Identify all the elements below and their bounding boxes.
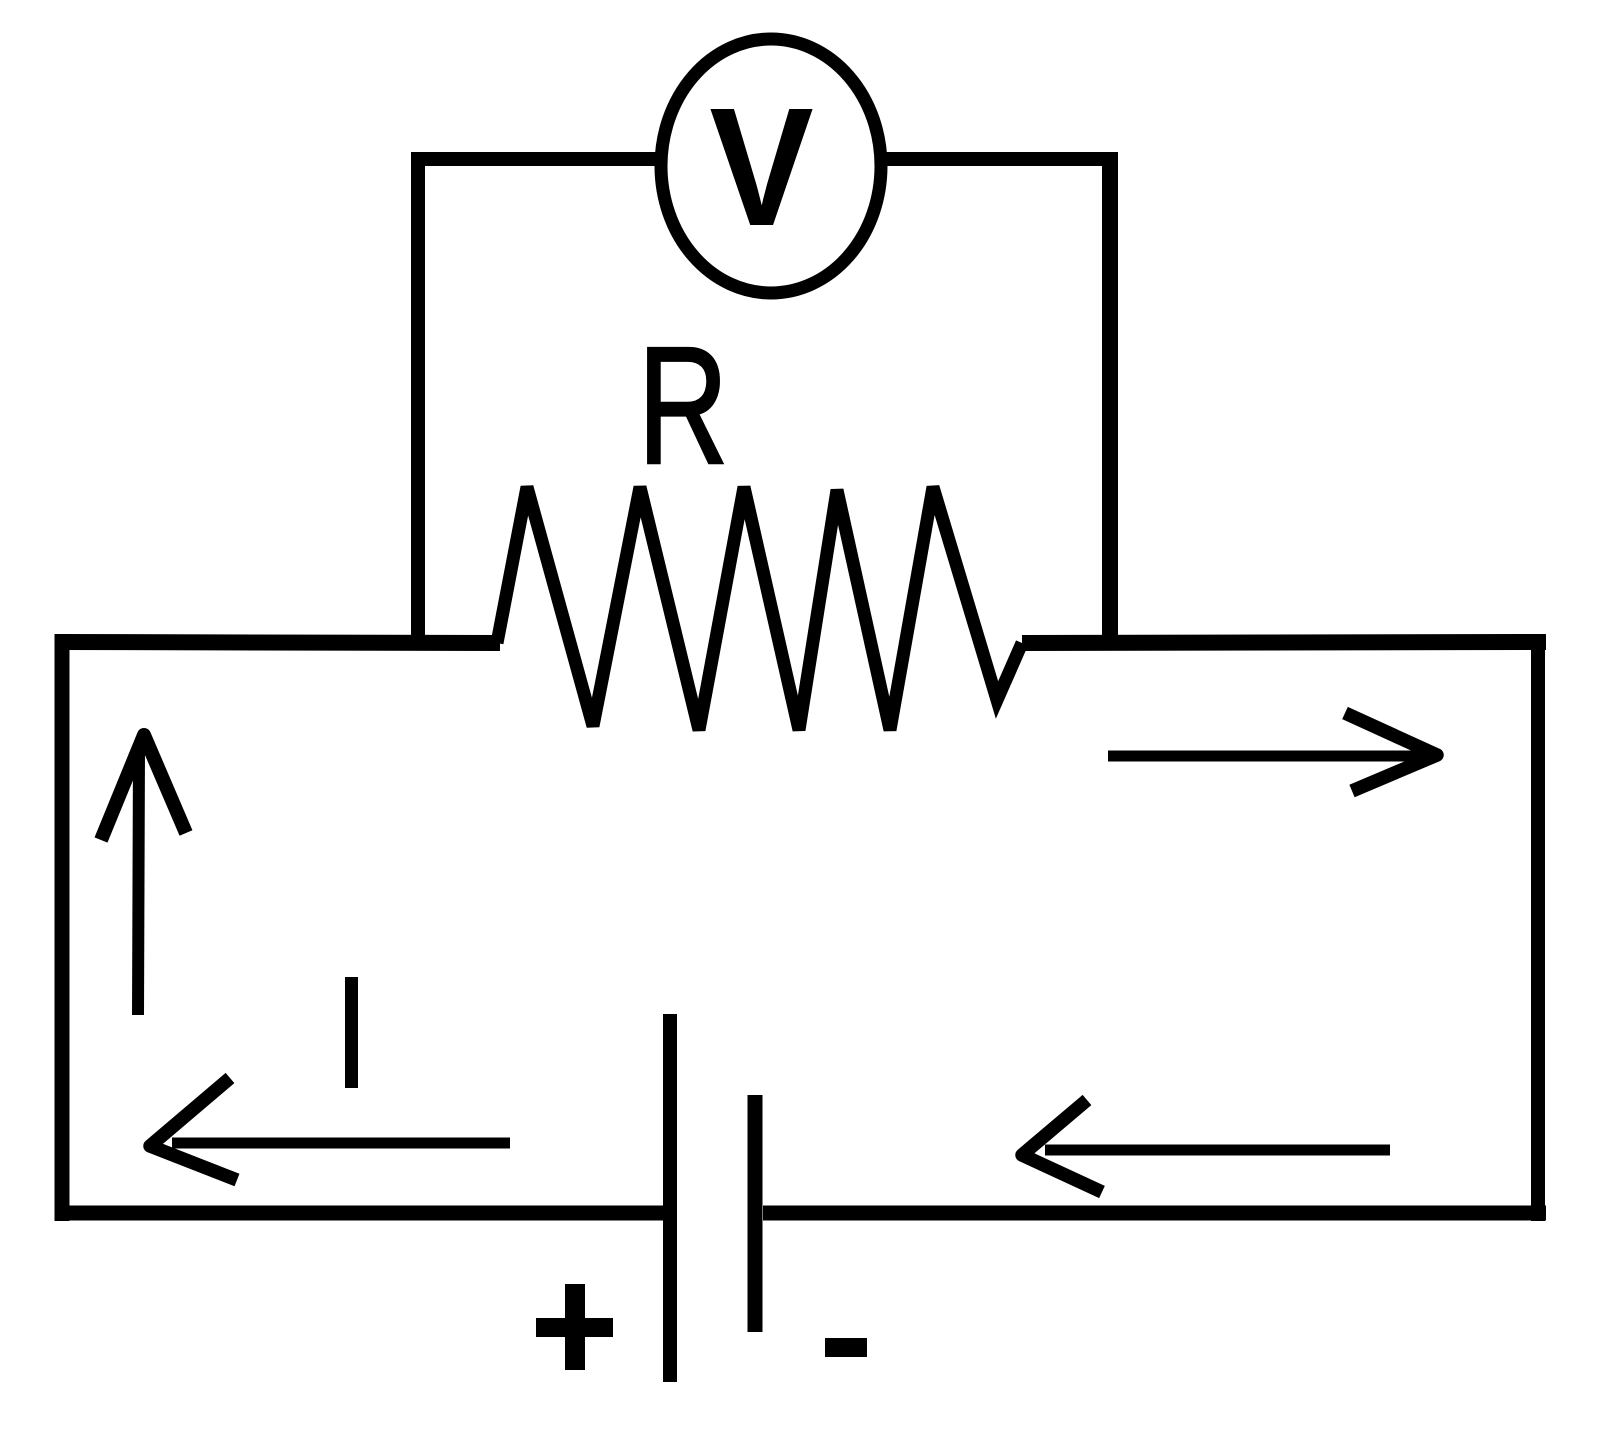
battery BT1 negative plate (short) bbox=[748, 1095, 763, 1332]
wire: bottom edge left segment bbox=[55, 1206, 663, 1221]
resistor R zigzag bbox=[497, 487, 1022, 730]
label I (current) bbox=[345, 977, 358, 1088]
svg-text:R: R bbox=[638, 313, 728, 500]
wire: bottom edge right segment bbox=[763, 1206, 1546, 1221]
battery BT1 positive plate (long) bbox=[663, 1014, 677, 1382]
current arrow left (bottom left) head bbox=[150, 1078, 237, 1180]
current arrow left (bottom right) shaft bbox=[1045, 1145, 1390, 1156]
voltmeter V1 circle bbox=[661, 39, 881, 293]
label - (battery negative) bbox=[825, 1338, 867, 1357]
wire: voltmeter branch left vertical bbox=[411, 152, 425, 650]
wire: left edge bbox=[55, 634, 70, 1221]
wire: voltmeter branch right horizontal bbox=[882, 152, 1117, 166]
wire: top edge left segment bbox=[55, 642, 500, 643]
current arrow left (bottom left) shaft bbox=[172, 1138, 510, 1149]
current arrow left (bottom right) head bbox=[1022, 1100, 1102, 1192]
current arrow up (left side) head bbox=[101, 735, 186, 840]
svg-text:V: V bbox=[709, 74, 813, 262]
current arrow right (top right) shaft bbox=[1108, 751, 1422, 762]
current arrow up (left side) shaft bbox=[138, 748, 139, 1015]
wire: voltmeter branch left horizontal bbox=[411, 152, 662, 166]
wire: right edge bbox=[1531, 634, 1545, 1221]
wire: top edge right segment bbox=[1022, 642, 1546, 643]
label + (battery positive) bbox=[536, 1284, 613, 1370]
current arrow right (top right) head bbox=[1345, 713, 1437, 791]
wire: voltmeter branch right vertical bbox=[1102, 152, 1118, 650]
